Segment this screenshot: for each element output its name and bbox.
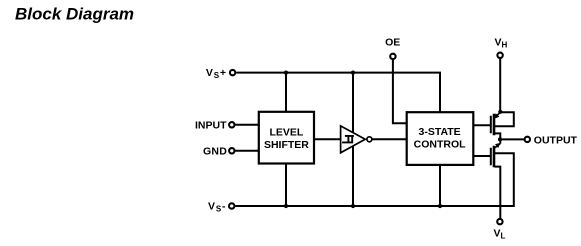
svg-text:3-STATE: 3-STATE (418, 126, 460, 138)
svg-text:LEVEL: LEVEL (269, 127, 303, 139)
svg-text:Block Diagram: Block Diagram (15, 5, 134, 24)
svg-text:OE: OE (385, 37, 400, 49)
svg-text:VS-: VS- (208, 200, 226, 213)
svg-text:VL: VL (494, 227, 506, 240)
svg-text:INPUT: INPUT (195, 120, 227, 132)
svg-text:GND: GND (203, 145, 227, 157)
svg-text:CONTROL: CONTROL (414, 138, 466, 150)
svg-text:VS+: VS+ (206, 67, 227, 80)
svg-text:VH: VH (495, 37, 508, 50)
svg-text:SHIFTER: SHIFTER (264, 139, 309, 151)
svg-text:OUTPUT: OUTPUT (534, 135, 578, 147)
